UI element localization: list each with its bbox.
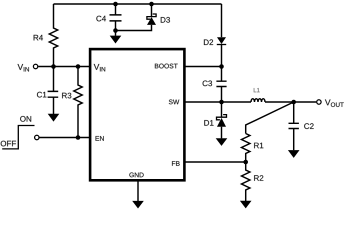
resistor R1 — [242, 134, 250, 163]
capacitor C1 — [48, 67, 59, 115]
ground below C2 — [288, 150, 300, 158]
pin SW label — [169, 100, 179, 105]
label L1 — [254, 88, 260, 92]
ground below R2 — [240, 201, 252, 209]
diode D2 — [221, 4, 223, 37]
node FB junction — [243, 160, 248, 165]
inductor L1 — [251, 99, 265, 102]
label C2 — [304, 123, 313, 129]
label OFF — [1, 141, 16, 147]
wire FB pin — [184, 161, 246, 163]
ground below GND pin — [132, 201, 144, 209]
node BOOST junction — [219, 64, 224, 69]
IC U1 regulator body — [90, 49, 184, 180]
ground below C4 — [115, 31, 117, 36]
pin BOOST label — [155, 64, 178, 69]
capacitor C3 — [216, 67, 226, 103]
node VOUT junction — [291, 100, 296, 105]
label C3 — [203, 81, 212, 87]
label D3 — [161, 17, 170, 23]
terminal EN port circle — [35, 135, 39, 139]
pin VIN label — [94, 64, 105, 71]
wire VIN input — [38, 66, 91, 68]
label ON — [20, 116, 31, 122]
capacitor C2 — [289, 102, 299, 150]
wire GND pin — [137, 180, 139, 201]
wire EN input — [39, 137, 91, 139]
capacitor C4 — [110, 4, 122, 31]
node SW junction — [219, 100, 224, 105]
pin EN label — [96, 136, 104, 141]
node D3 top junction — [149, 2, 154, 7]
label R1 — [254, 143, 263, 149]
resistor R4 — [49, 4, 57, 67]
on-off step waveform — [2, 126, 34, 149]
ground below D1 — [216, 138, 228, 146]
wire VOUT to R1 diagonal — [246, 102, 294, 134]
label C1 — [37, 92, 46, 98]
terminal VIN port circle — [33, 64, 37, 68]
pin GND label — [129, 173, 143, 178]
label D2 — [204, 39, 213, 45]
node VIN-R3 junction — [76, 64, 81, 69]
resistor R3 — [74, 67, 82, 138]
node EN junction — [76, 135, 81, 140]
label D1 — [204, 120, 213, 126]
wire SW pin — [184, 101, 252, 103]
pin FB label — [172, 161, 180, 166]
label R4 — [34, 35, 43, 41]
terminal VOUT port circle — [317, 100, 321, 104]
node C4 top junction — [113, 2, 118, 7]
wire BOOST pin — [184, 66, 222, 68]
wire L1 to VOUT — [265, 101, 316, 103]
label VOUT port — [325, 99, 344, 106]
ground below C1 — [48, 114, 60, 122]
label R3 — [62, 93, 71, 99]
diode D3 schottky — [151, 4, 153, 17]
resistor R2 — [242, 162, 250, 201]
node C4 bottom junction — [113, 28, 118, 33]
label VIN port — [18, 64, 29, 71]
label C4 — [96, 16, 106, 22]
wire C4 to D3 bottom — [116, 25, 152, 31]
diode D1 schottky — [221, 102, 223, 117]
label R2 — [254, 175, 263, 181]
wire top boost rail — [54, 3, 222, 5]
node VIN-C1 junction — [51, 64, 56, 69]
